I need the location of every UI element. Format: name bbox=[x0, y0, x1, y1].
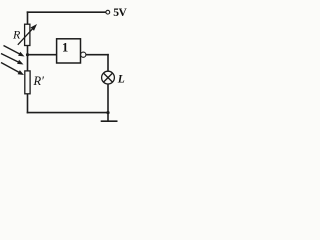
wire left column top (to R) bbox=[27, 12, 29, 24]
terminal 5V bbox=[106, 10, 110, 14]
wire R' bottom to rail bbox=[27, 94, 29, 113]
wire lamp to bottom rail and ground bbox=[107, 84, 109, 120]
svg-text:L: L bbox=[117, 74, 125, 86]
wire gate output bbox=[86, 54, 108, 56]
op-amp U1 logic gate "1" bbox=[57, 39, 86, 63]
resistor R bbox=[18, 24, 37, 46]
svg-text:R: R bbox=[12, 28, 21, 42]
lamp L bbox=[102, 71, 115, 84]
wire down to lamp bbox=[107, 55, 109, 71]
svg-text:R′: R′ bbox=[33, 74, 45, 88]
wire top rail bbox=[28, 11, 106, 13]
wire bottom rail bbox=[28, 112, 109, 114]
svg-text:1: 1 bbox=[62, 41, 68, 55]
photoresistor R' bbox=[1, 46, 30, 94]
svg-text:5V: 5V bbox=[113, 7, 127, 19]
wire input to gate bbox=[28, 54, 57, 56]
node junction gate input bbox=[26, 53, 29, 56]
wire R bottom to R' top bbox=[27, 46, 29, 71]
ground bbox=[101, 120, 118, 122]
node junction bottom rail bbox=[106, 111, 109, 114]
